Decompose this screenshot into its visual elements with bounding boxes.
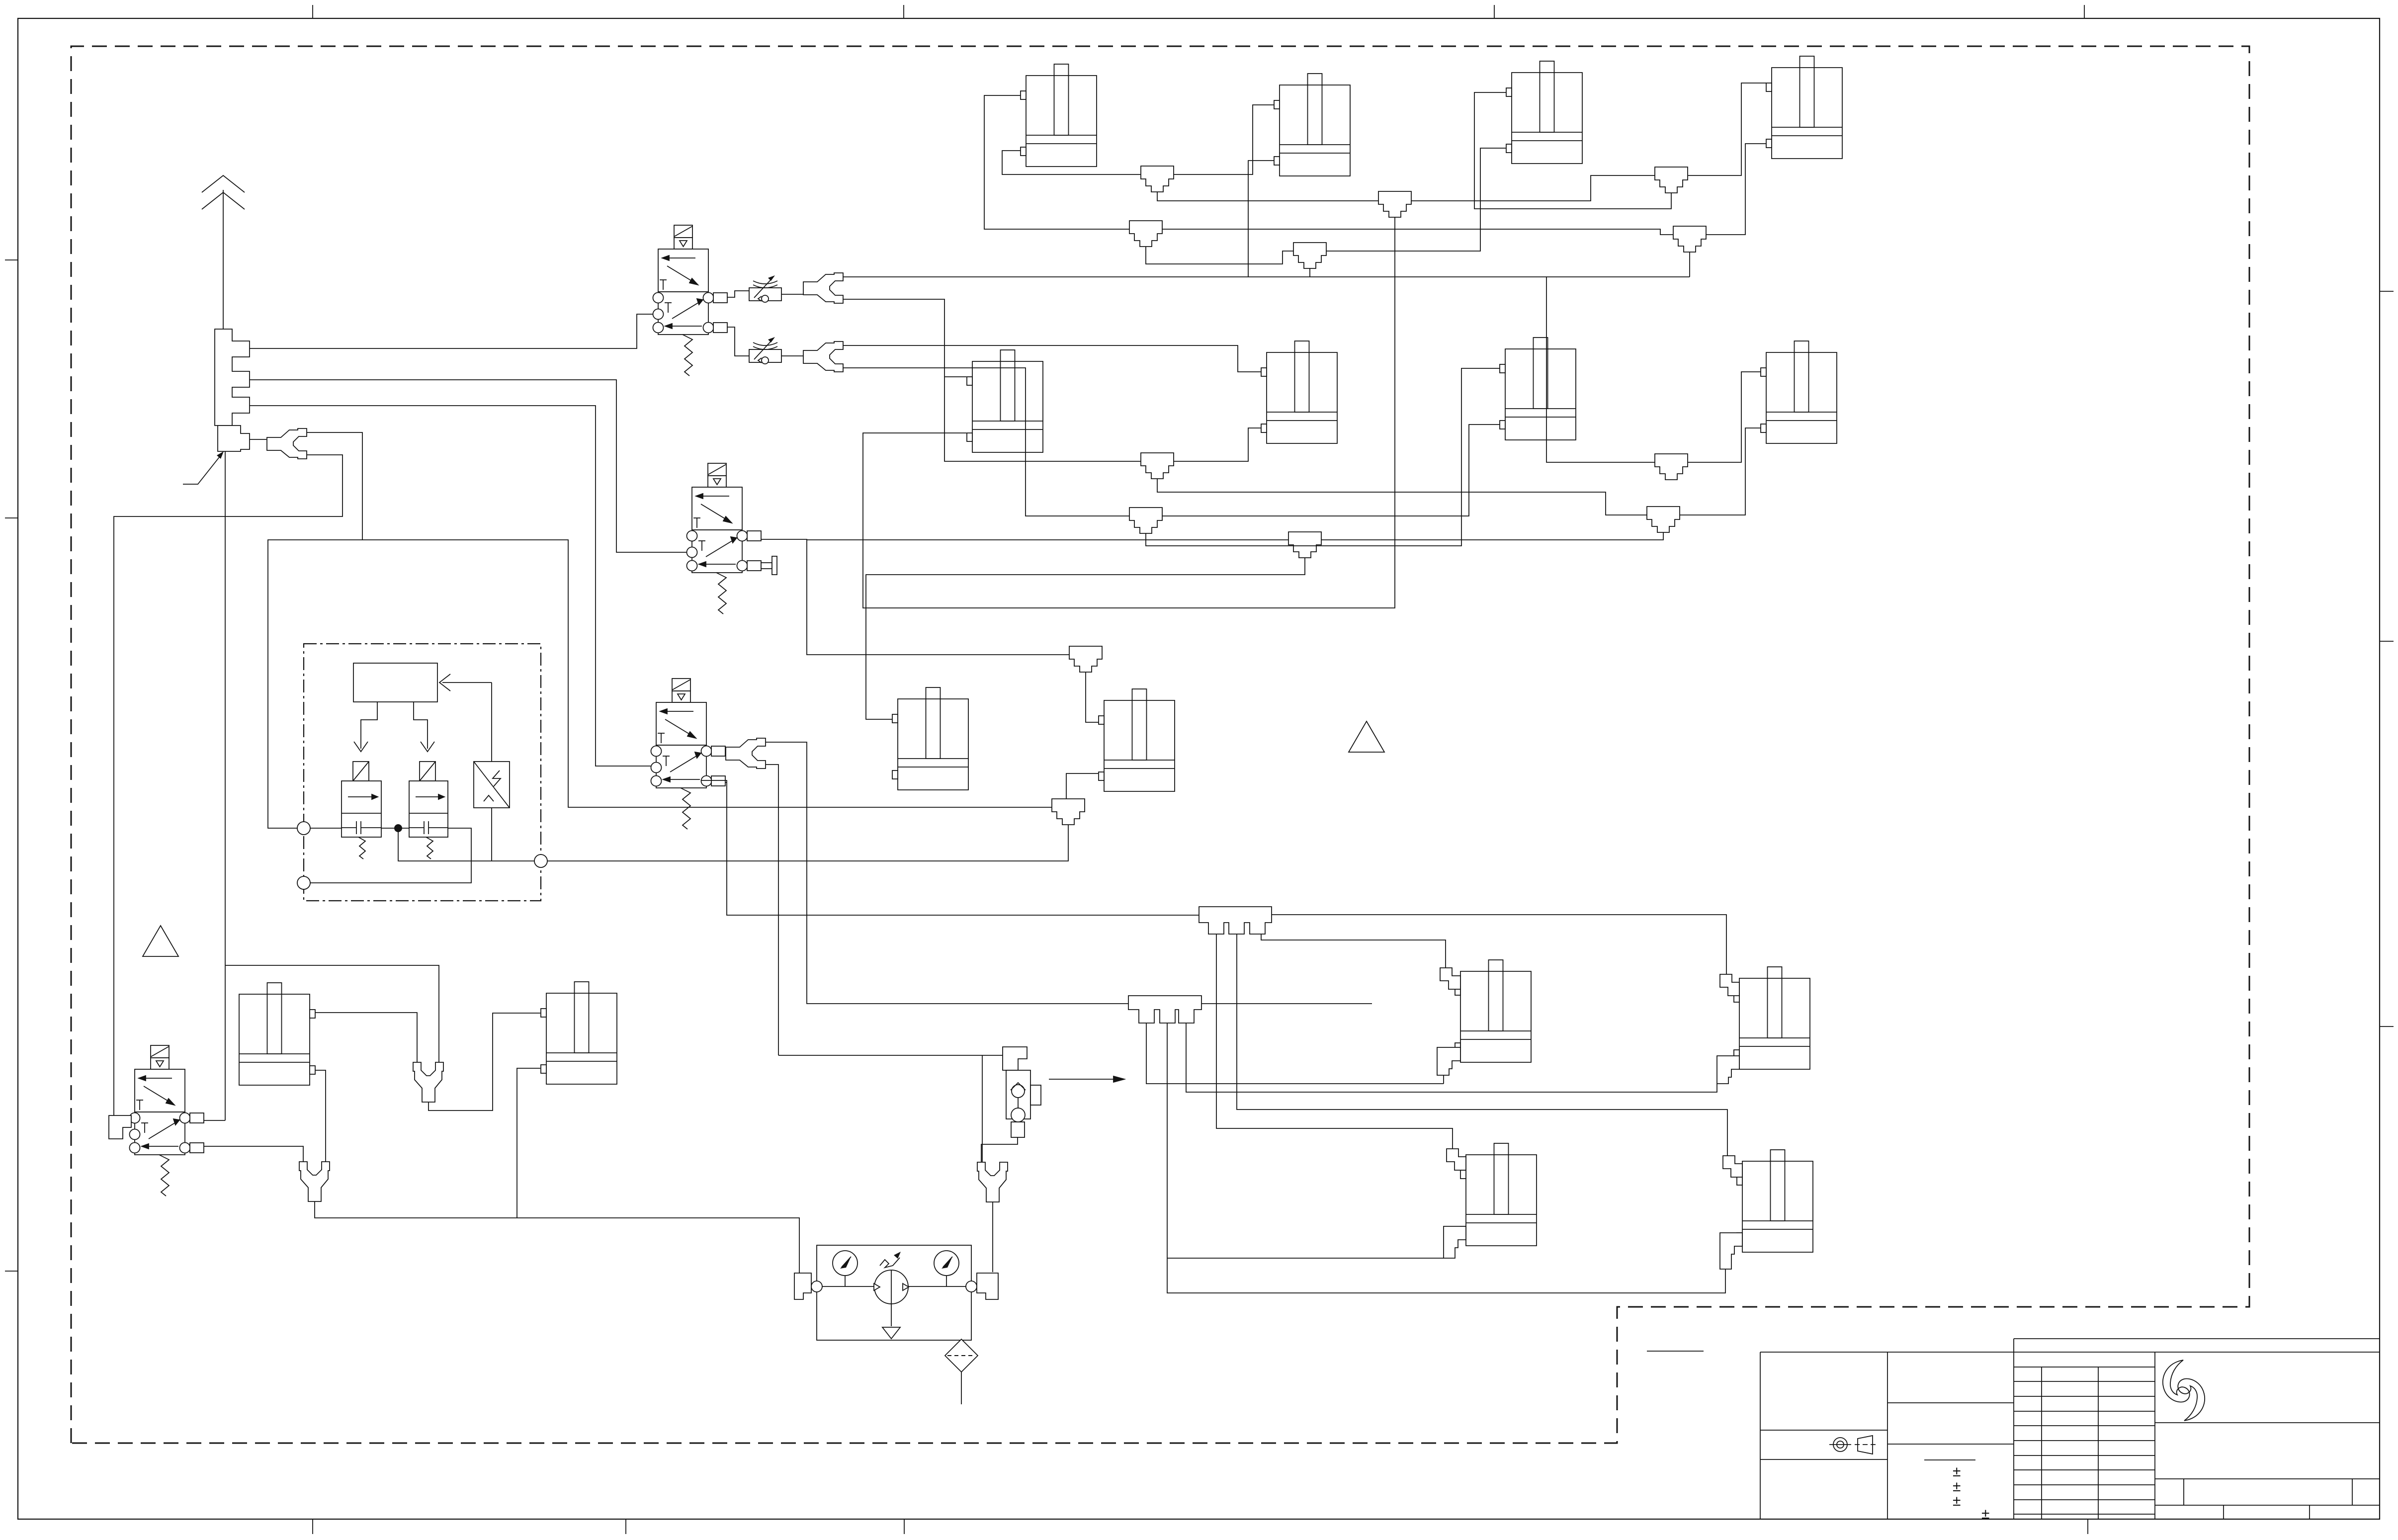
cylinder C4	[1766, 56, 1842, 159]
wye W0 at manifold outlet	[267, 428, 307, 459]
wire C1 rod port to tee T2	[984, 95, 1129, 229]
small table columns	[2042, 1352, 2155, 1519]
cylinder C1	[1021, 64, 1097, 167]
svg-text:±: ±	[1953, 1493, 1961, 1509]
wire wye W1 bottom to tee T1b	[843, 299, 1141, 461]
border tick top 3	[1494, 5, 1495, 18]
wire tee T1b stem to tee TCb	[1157, 479, 1647, 515]
wire wye W2 top to C6 rod port	[843, 345, 1261, 372]
cylinder C5	[967, 350, 1043, 452]
spring V2	[716, 573, 726, 614]
title block outline	[1760, 1339, 2380, 1519]
tee TDb	[1288, 532, 1321, 558]
wye W3 on valve V3 output	[726, 738, 766, 769]
internal wire dot to P3	[398, 828, 534, 861]
FRL box	[817, 1245, 971, 1340]
node circles	[811, 1281, 822, 1292]
border tick top 2	[903, 5, 904, 18]
wire W0 top branch	[268, 432, 362, 828]
node circle P3	[534, 855, 547, 867]
wire manifold out2 to valve V2	[250, 380, 686, 552]
spring V3	[681, 788, 690, 829]
wire cylinder B1 rod port to wye W4	[315, 1013, 417, 1062]
wire supply to check unit	[778, 1055, 1003, 1056]
internal wire P1 to valves	[310, 828, 471, 883]
flow control FC2	[749, 337, 781, 364]
spring V4	[159, 1155, 169, 1196]
valve V1 body	[658, 249, 708, 292]
wire supply to D4 top riser	[982, 1055, 983, 1162]
leader arrow to manifold	[183, 451, 224, 484]
wire valve V4 port A riser	[204, 1120, 225, 1121]
tee TA	[1378, 191, 1411, 217]
wire comb A tooth1 to D3 top	[1216, 934, 1453, 1149]
wire valve V1 port A to FC1	[727, 291, 749, 297]
internal wire PE switch up to controller	[491, 683, 492, 762]
small table rows	[2014, 1367, 2155, 1514]
border tick right 2	[2380, 641, 2394, 642]
wire comb B tooth1 to D1 bottom	[1146, 1023, 1444, 1084]
wire tee TC to C4 base port	[1706, 144, 1766, 235]
tee TB	[1655, 167, 1688, 193]
gauge 1	[833, 1251, 857, 1276]
tolerance marks	[1953, 1463, 1989, 1522]
cylinder B2	[541, 982, 617, 1084]
wye W1	[803, 273, 843, 303]
wire comb A tooth2 to D3 bottom	[1167, 934, 1727, 1258]
FRL mid line	[822, 1286, 874, 1287]
cylinder D1 with elbows	[1455, 960, 1531, 1062]
pilot line left	[361, 702, 377, 749]
wire valve V3 wye outputs down	[766, 742, 1128, 1004]
internal wire PE switch down	[491, 808, 492, 861]
gauge 2	[934, 1251, 959, 1276]
dash-dot control box	[304, 644, 541, 901]
comb manifold A	[1199, 907, 1272, 934]
wire valve V2 long run to row2 tees	[807, 532, 1663, 540]
wire tee TD stem joins bus556	[1309, 268, 1310, 277]
cylinder C8	[1761, 341, 1837, 443]
controller block	[353, 663, 437, 702]
wire valve V3 port B to comb manifold A	[701, 780, 1199, 915]
cylinder D4 with elbows	[1737, 1150, 1813, 1252]
wire valve V4 port B to wye W4	[204, 1146, 303, 1162]
wire tee T2b stem to C7 rod port	[1146, 368, 1500, 546]
solenoid pilot valve 2	[420, 762, 435, 781]
border tick bottom 4	[2087, 1519, 2088, 1534]
svg-text:±: ±	[1953, 1463, 1961, 1480]
wire wye W2 bottom to tee T2b	[843, 368, 1129, 516]
spring V1	[683, 335, 692, 376]
border tick bottom 1	[312, 1519, 313, 1534]
wire W0 bottom branch	[114, 455, 343, 1115]
wire cylinder B1 base port to wye W5	[315, 1070, 326, 1162]
manifold block left	[215, 329, 250, 426]
border tick left 2	[5, 517, 18, 518]
wire comb A feed right to D2	[1272, 915, 1726, 978]
wire check unit to wye W6	[981, 1137, 1018, 1162]
wire tee TD2 stem to M1 rod port	[866, 558, 1305, 719]
wire cylinder B2 base port join	[517, 1068, 540, 1218]
outlet elbow right	[977, 1273, 998, 1299]
inlet elbow fitting valve V4	[109, 1115, 131, 1139]
wire C2 base port down to bus556	[1248, 161, 1274, 277]
filter with drain	[945, 1339, 978, 1404]
logo swirl	[2163, 1360, 2205, 1421]
tee TD	[1293, 243, 1326, 268]
wye W2	[803, 342, 843, 372]
warning triangle left	[143, 926, 178, 956]
plugged port on valve V2	[761, 563, 772, 569]
wire manifold lower outlet down	[225, 451, 439, 1120]
pilot line right	[414, 702, 428, 749]
wire wye W5 stem to FRL inlet	[315, 1201, 799, 1273]
wire FC2 to wye W2	[781, 355, 804, 356]
wire tee TB stem to C3 rod port	[1474, 92, 1671, 209]
wire valve V1 port B to FC2	[727, 327, 749, 356]
border tick left 1	[5, 259, 18, 260]
flow control FC1	[749, 275, 781, 302]
right area cells	[2184, 1479, 2352, 1519]
warning triangle right	[1349, 721, 1384, 752]
border tick top 1	[312, 5, 313, 18]
cylinder C2	[1274, 74, 1350, 176]
cylinder C3	[1506, 61, 1582, 164]
wire tee T1b to C6 base port	[1174, 428, 1261, 461]
border tick left 3	[5, 1271, 18, 1272]
solenoid pilot valve 1	[353, 762, 369, 781]
tee ML pointing left beside middle cylinders	[1052, 799, 1085, 825]
wire tee TCb to C8 base	[1680, 428, 1761, 515]
vent triangle	[882, 1327, 900, 1339]
cylinder B1	[239, 983, 315, 1085]
regulator	[874, 1270, 908, 1304]
solenoid V1	[674, 225, 692, 238]
wire tee T2b to C7 base port	[1162, 425, 1500, 516]
tee TC	[1673, 226, 1706, 252]
wire comb B tooth3 to D2 bottom	[1186, 1023, 1717, 1092]
tee TBb	[1655, 454, 1688, 480]
flow arrow annotation	[1049, 1076, 1124, 1082]
manifold outlet fitting	[218, 426, 250, 451]
wire manifold out3 to valve V3	[250, 406, 651, 766]
node circle P1	[297, 822, 310, 835]
tee T1b	[1141, 453, 1174, 479]
check valve unit above FRL	[1003, 1047, 1041, 1137]
wire manifold out1 to valve V1	[250, 314, 653, 348]
wire wye W6 stem to FRL outlet	[992, 1202, 993, 1272]
border tick right 3	[2380, 1026, 2394, 1027]
tee T1	[1141, 166, 1174, 192]
wye W5 pointing down	[299, 1162, 330, 1201]
cylinder C6	[1261, 341, 1337, 443]
wire comb B feed line	[1201, 1003, 1372, 1004]
arrow into controller	[439, 674, 492, 691]
wire comb A side out to D1 riser	[1261, 934, 1446, 968]
wye W4 pointing down	[413, 1062, 443, 1102]
cylinder M1	[892, 687, 968, 790]
wire FC1 to wye W1	[781, 294, 804, 295]
projection symbol	[1829, 1436, 1876, 1454]
tolerance underline	[1924, 1459, 1975, 1460]
wire wye W4 stem to cylinder B2 rod port	[428, 1013, 540, 1111]
wire tee T1 to C2 rod port	[1174, 105, 1274, 174]
wire tee TC stem down joins y556	[1689, 252, 1690, 277]
tee TM	[1069, 646, 1102, 672]
wire M2 base port to tee ML	[1066, 773, 1098, 799]
tee T2b	[1129, 508, 1162, 533]
border tick right 1	[2380, 291, 2394, 292]
wire C1 base port to tee T1	[1002, 151, 1141, 174]
pressure-electric switch	[474, 762, 510, 808]
tee T2	[1129, 221, 1162, 247]
wire tee ML stem to node P3	[547, 825, 1068, 861]
cylinder D3 with elbows	[1460, 1143, 1537, 1246]
wire tee T1 stem to tee TA	[1157, 192, 1378, 201]
cylinder D2 with elbows	[1734, 967, 1810, 1069]
wire tee T2 stem to tee TD	[1146, 247, 1293, 264]
right area rows	[2155, 1423, 2380, 1505]
wire manifold outlet to W0	[250, 439, 266, 440]
wire tee TD to C3 base port	[1326, 148, 1506, 251]
border tick top 4	[2084, 5, 2085, 18]
exhaust arrow symbol	[202, 175, 245, 329]
border tick bottom 3	[904, 1519, 905, 1534]
comb manifold B	[1128, 996, 1201, 1023]
wire W0 top branch right leg to tee ML	[362, 540, 1052, 807]
junction dot	[394, 824, 402, 832]
cylinder M2	[1099, 689, 1175, 791]
wire comb B tooth2 to D4 bottom	[1167, 1023, 1725, 1293]
middle box dividers	[1887, 1403, 2014, 1444]
wire wye W1 top to tee TC area	[843, 277, 1690, 462]
wye W6 pointing down above FRL	[977, 1162, 1008, 1202]
left box dividers	[1760, 1352, 1887, 1519]
tee TCb	[1647, 507, 1680, 532]
border tick bottom 2	[625, 1519, 626, 1534]
svg-text:±: ±	[1981, 1506, 1989, 1522]
wire tee TB to C4 rod port	[1688, 83, 1766, 175]
wire tee TA stem down to C5 base port	[863, 217, 1395, 608]
wire tee TBb to C8 rod port	[1688, 372, 1761, 462]
node circle P2	[297, 876, 310, 889]
inlet elbow left	[794, 1273, 811, 1299]
wire tee TM stem to M2 rod port	[1086, 672, 1099, 722]
wire tee TA to tee TB	[1411, 175, 1655, 201]
cylinder C7	[1500, 338, 1576, 440]
wire tee T2 to tee TC	[1162, 229, 1673, 235]
wire valve V2 out to M2 rod port	[761, 539, 1069, 655]
signature line	[1647, 1351, 1704, 1352]
